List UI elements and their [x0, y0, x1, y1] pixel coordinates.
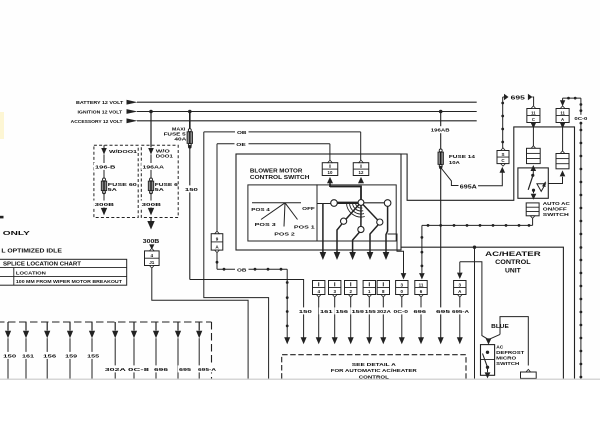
svg-text:J1: J1	[149, 260, 155, 265]
svg-text:696: 696	[154, 367, 169, 373]
arrow up into connector 10	[327, 177, 333, 187]
junction on ignition bus at x151	[149, 110, 153, 114]
arrow 695 into detail box	[438, 337, 444, 344]
harness arrow 8	[153, 322, 159, 379]
arrow into W/O DOO1 box	[148, 148, 173, 159]
harness arrow 1	[5, 322, 11, 379]
svg-text:POS 4: POS 4	[251, 207, 270, 213]
svg-text:196AA: 196AA	[143, 164, 165, 169]
arrow into W/DOO1 box	[101, 145, 137, 154]
svg-text:S: S	[501, 152, 504, 157]
beaded wire to OC-O	[563, 97, 581, 100]
wire 196AA	[141, 155, 165, 180]
label blower motor control switch	[250, 168, 310, 181]
harness arrow 6	[112, 322, 118, 379]
svg-text:FUSE 14: FUSE 14	[449, 154, 475, 160]
svg-text:LOCATION: LOCATION	[16, 270, 47, 275]
svg-text:OB: OB	[237, 268, 247, 274]
svg-text:100 MM FROM WIPER MOTOR BREAKO: 100 MM FROM WIPER MOTOR BREAKOUT	[16, 279, 122, 284]
harness arrow 4	[67, 322, 73, 379]
svg-text:FOR AUTOMATIC AC/HEATER: FOR AUTOMATIC AC/HEATER	[331, 368, 418, 374]
junction on ignition bus at x190	[188, 110, 192, 114]
connector 1-1	[363, 281, 375, 298]
svg-text:695-A: 695-A	[198, 367, 217, 373]
svg-text:695A: 695A	[460, 184, 478, 190]
connector 4 J1	[145, 248, 160, 268]
auto ac switch box	[518, 168, 548, 198]
wire battery 12 volt bus	[137, 101, 477, 103]
wire drop 695-A	[451, 297, 470, 344]
junction below fuse 14	[439, 166, 442, 169]
bar to right contact	[364, 202, 385, 204]
wire 196AB	[430, 112, 451, 151]
fuse FUSE 60 5A	[101, 178, 137, 194]
arrow into splice 4 J1	[149, 244, 154, 249]
pedestal connector	[521, 369, 537, 378]
rotary arc 2	[353, 203, 364, 211]
svg-text:W/DOO1: W/DOO1	[109, 149, 138, 154]
connector 1-8	[377, 281, 389, 298]
svg-text:ONLY: ONLY	[3, 231, 31, 237]
node accessory feed arrow	[71, 118, 138, 124]
spoke to lower-right contact	[363, 205, 378, 221]
wire drop to W/O DOO1 box	[150, 112, 152, 148]
wire 695 down	[435, 168, 451, 339]
contact circle lower-left	[341, 218, 347, 224]
wire switch exit 5	[383, 206, 390, 260]
connector 9 A	[211, 231, 223, 253]
selector position diagram	[251, 203, 315, 238]
connector S C	[497, 148, 509, 166]
wire micro switch feed	[460, 262, 489, 340]
svg-text:5A: 5A	[155, 187, 165, 192]
wire OB beaded drop	[286, 269, 289, 338]
wire below 9A	[216, 253, 219, 269]
contact circle lower-right	[377, 219, 383, 225]
arrow down into J1 A	[560, 98, 565, 106]
dashed box see detail A	[282, 355, 466, 379]
junction on ignition bus at x441	[439, 110, 443, 114]
label 695A	[460, 184, 478, 190]
svg-text:CONTROL SWITCH: CONTROL SWITCH	[250, 175, 310, 181]
harness arrow 5	[89, 322, 95, 379]
arrow 150 into detail box	[301, 337, 307, 344]
wire auto ac right side	[548, 170, 565, 183]
wire 150 right and down	[190, 280, 313, 339]
wire below on/off block	[532, 219, 534, 226]
svg-text:ACCESSORY 12 VOLT: ACCESSORY 12 VOLT	[71, 119, 123, 125]
wire OB beaded horizontal	[217, 268, 287, 274]
beaded wire to connector 11-6	[422, 224, 533, 227]
wire J1A into unit	[560, 123, 565, 152]
wire into micro switch	[486, 334, 500, 344]
label see detail A	[331, 362, 418, 380]
arrow 300B below option box	[147, 218, 154, 230]
arrow out of W/O DOO1	[148, 208, 154, 216]
wire 300B in W/O DOO1	[140, 192, 162, 208]
wire drop 0C-0	[392, 297, 409, 344]
label ac/heater control unit	[485, 251, 541, 275]
svg-text:0C-0: 0C-0	[574, 116, 588, 121]
wire 300B in W/DOO1	[93, 192, 115, 208]
node battery feed arrow	[76, 100, 138, 106]
svg-text:10A: 10A	[449, 160, 461, 166]
connector 1-4	[313, 281, 325, 298]
arrow out of W/DOO1	[101, 208, 107, 216]
svg-text:A: A	[561, 117, 564, 122]
svg-text:L OPTIMIZED IDLE: L OPTIMIZED IDLE	[1, 248, 62, 254]
dashed harness box bottom-left	[0, 322, 212, 379]
svg-text:156: 156	[336, 309, 349, 315]
connector 3-0	[396, 281, 408, 298]
svg-text:AC: AC	[496, 344, 504, 350]
contact circle right	[384, 200, 391, 207]
svg-text:POS 3: POS 3	[255, 222, 276, 228]
wire 695A diagonal	[441, 168, 459, 186]
svg-text:5A: 5A	[108, 187, 118, 192]
rotary switch pivot	[358, 200, 364, 206]
wire drop 161	[316, 297, 334, 344]
svg-text:POS 1: POS 1	[294, 224, 315, 230]
svg-text:696: 696	[414, 309, 427, 315]
wire switch exit 3	[349, 232, 360, 260]
wire from J1 down right to bottom	[152, 268, 248, 378]
harness arrow 3	[44, 322, 50, 379]
ac defrost micro switch	[481, 345, 495, 376]
arrow out of auto ac switch	[531, 190, 537, 200]
svg-text:150: 150	[299, 309, 313, 315]
label ac defrost micro switch	[496, 344, 524, 367]
wire drop 696	[412, 297, 427, 344]
beaded wire OC-O down	[573, 98, 588, 379]
wire OB upper segment	[204, 130, 361, 136]
svg-text:ON/OFF: ON/OFF	[543, 206, 567, 212]
svg-text:11: 11	[531, 110, 536, 115]
wire off to exit1	[317, 203, 331, 205]
label auto ac on/off switch	[543, 201, 571, 218]
connector 12	[353, 160, 369, 175]
svg-text:SPLICE LOCATION CHART: SPLICE LOCATION CHART	[3, 262, 81, 268]
wire OE down to box10	[329, 144, 331, 160]
dashed option box W/DOO1	[94, 145, 138, 217]
svg-text:11: 11	[560, 110, 565, 115]
resistor block right	[556, 151, 569, 169]
svg-text:695-A: 695-A	[452, 309, 470, 315]
wire drop 159	[348, 297, 365, 344]
arrow up into connector 12	[358, 177, 364, 183]
svg-text:BLOWER MOTOR: BLOWER MOTOR	[250, 168, 303, 174]
wire switch exit 4	[367, 225, 379, 260]
spoke to lower-left contact	[346, 205, 359, 220]
wire OE segment	[217, 142, 330, 148]
label optimized idle	[1, 248, 62, 254]
rotary arc 4	[347, 203, 365, 218]
svg-text:OFF: OFF	[302, 206, 315, 212]
svg-text:159: 159	[352, 309, 365, 315]
page bottom cutoff	[0, 379, 600, 435]
wire drop 155	[364, 297, 377, 344]
thick feed from rotor to connectors	[330, 187, 361, 200]
svg-text:161: 161	[320, 309, 333, 315]
wire OB left leg down	[204, 132, 269, 379]
svg-text:161: 161	[22, 353, 34, 359]
blower switch outer box	[236, 154, 401, 250]
spoke to bottom contact	[360, 205, 362, 226]
label 695 top	[511, 95, 525, 101]
svg-text:40A: 40A	[174, 137, 187, 142]
svg-text:196-B: 196-B	[95, 164, 116, 169]
switch actuator symbol	[537, 182, 546, 192]
svg-text:150: 150	[3, 353, 17, 359]
svg-text:4: 4	[151, 253, 154, 258]
rotary arc 1	[355, 203, 362, 209]
wire ignition 12 volt bus	[137, 111, 477, 113]
svg-text:300B: 300B	[143, 239, 160, 245]
left edge smudge	[0, 112, 4, 139]
arrow into J1 C	[528, 94, 534, 106]
fuse FUSE 61 5A	[148, 178, 178, 194]
dashed option box W/O DOO1	[141, 145, 178, 217]
svg-text:302A: 302A	[377, 309, 392, 315]
svg-text:159: 159	[65, 353, 77, 359]
svg-text:155: 155	[365, 309, 376, 315]
connector 1-2	[345, 281, 357, 298]
resistor block upper	[527, 146, 541, 164]
svg-text:IGNITION 12 VOLT: IGNITION 12 VOLT	[78, 110, 123, 116]
splice location chart table	[0, 259, 127, 285]
left edge mark	[0, 216, 4, 219]
rotary arc 3	[350, 203, 365, 214]
connector 1-3	[329, 281, 341, 298]
svg-text:302A: 302A	[105, 367, 127, 373]
svg-text:0C-0: 0C-0	[394, 309, 409, 315]
node ignition feed arrow	[78, 109, 138, 115]
harness arrow 7	[131, 322, 137, 379]
wire switch exit 2	[334, 224, 342, 260]
switch contact lower	[532, 189, 535, 192]
svg-text:SWITCH: SWITCH	[496, 361, 520, 367]
fuse FUSE 14 10A	[438, 149, 475, 168]
svg-text:CONTROL: CONTROL	[495, 259, 531, 266]
svg-text:POS 2: POS 2	[274, 231, 295, 237]
harness labels row2	[104, 365, 218, 372]
svg-text:DEFROST: DEFROST	[496, 350, 524, 356]
label blue	[491, 324, 509, 330]
wire switch exit 1	[320, 204, 327, 261]
arrow OB into detail box	[284, 337, 290, 344]
svg-text:MICRO: MICRO	[496, 355, 516, 361]
svg-text:AUTO AC: AUTO AC	[543, 201, 571, 207]
svg-text:155: 155	[87, 353, 99, 359]
harness arrow 2	[23, 322, 29, 379]
wire blue loop	[500, 317, 528, 366]
wire feed to connector 3-0	[388, 234, 407, 280]
connector 10	[322, 160, 338, 175]
rotary switch wiper bar	[337, 202, 358, 204]
svg-text:SWITCH: SWITCH	[543, 212, 570, 218]
svg-text:9: 9	[216, 237, 219, 242]
wire from ignition bus to maxi fuse	[189, 112, 191, 131]
blower switch right sub-box	[317, 185, 396, 241]
contact circle left	[331, 200, 338, 207]
fuse MAXI FUSE 5 40A	[164, 127, 193, 147]
resistor block on/off	[526, 203, 539, 219]
wire 150 down	[184, 147, 199, 280]
blower switch left sub-box	[248, 185, 317, 241]
svg-text:0C-8: 0C-8	[128, 367, 150, 373]
ac/heater unit boundary	[401, 127, 575, 379]
switch contact upper	[531, 174, 534, 177]
connector J1 A	[556, 106, 569, 123]
svg-text:C: C	[532, 117, 535, 122]
contact circle bottom	[358, 226, 364, 232]
connector 3-A	[454, 281, 466, 298]
svg-text:695: 695	[179, 367, 191, 373]
junction below maxi fuse	[188, 145, 192, 149]
wire 196-B	[94, 155, 117, 180]
connector J1 C	[527, 106, 540, 123]
svg-text:SEE DETAIL A: SEE DETAIL A	[352, 362, 397, 368]
svg-text:BATTERY 12 VOLT: BATTERY 12 VOLT	[76, 100, 123, 106]
svg-text:10: 10	[328, 170, 333, 175]
harness labels row1	[2, 352, 100, 359]
arrow into connector 3-A	[457, 262, 463, 279]
junction on lower boundary	[473, 246, 476, 249]
svg-text:156: 156	[43, 353, 57, 359]
label 300B	[143, 239, 160, 245]
wire down from lower boundary	[474, 247, 476, 378]
svg-text:DOO1: DOO1	[156, 154, 174, 159]
wire accessory 12 volt bus	[137, 120, 477, 122]
beaded wire 695 up	[501, 97, 504, 148]
arrow 695 right	[503, 94, 509, 101]
wire drop 302A	[376, 297, 392, 344]
label only	[3, 231, 31, 237]
wire J1C into unit	[531, 123, 536, 147]
switch blade	[528, 176, 533, 190]
svg-text:OB: OB	[237, 130, 247, 136]
wire lower boundary	[401, 247, 563, 378]
arrow up into resistor block	[531, 165, 537, 175]
wire 695A to S-C connector	[478, 167, 505, 186]
svg-text:300B: 300B	[95, 202, 116, 207]
svg-text:OE: OE	[236, 142, 247, 148]
wire OB down to box12	[360, 132, 362, 160]
harness arrow 10	[196, 322, 202, 379]
svg-text:AC/HEATER: AC/HEATER	[485, 251, 541, 258]
wire drop 156	[332, 297, 349, 344]
svg-text:11: 11	[419, 282, 424, 287]
svg-text:UNIT: UNIT	[505, 268, 521, 275]
svg-text:196AB: 196AB	[431, 128, 450, 134]
svg-text:695: 695	[436, 309, 451, 315]
svg-text:12: 12	[359, 170, 364, 175]
svg-text:150: 150	[185, 187, 199, 193]
connector 11-6	[415, 281, 427, 298]
wire OE down to connector 9A	[216, 144, 218, 232]
beaded drop to connector 11-6	[419, 225, 425, 279]
svg-text:695: 695	[511, 95, 525, 101]
arrow out of micro switch	[485, 369, 491, 379]
svg-text:300B: 300B	[142, 202, 163, 207]
harness arrow 9	[175, 322, 181, 379]
